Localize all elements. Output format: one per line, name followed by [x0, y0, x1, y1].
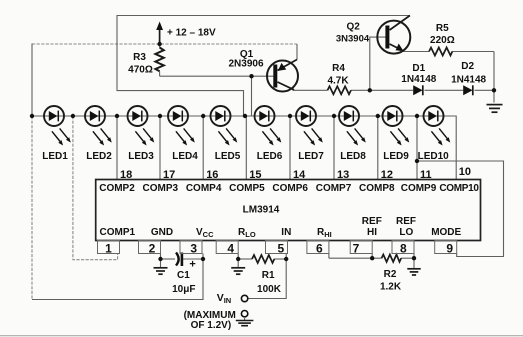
pin box 2 — [139, 241, 161, 254]
wire pin 15 stub — [245, 116, 247, 180]
pin box 4 — [216, 241, 238, 254]
node pin4 RLO — [236, 257, 240, 261]
LED9 — [383, 106, 410, 146]
node D2 cathode / ground — [492, 88, 496, 92]
node pin8 REF LO — [412, 256, 416, 260]
node Q2 base / R4 / D1 — [368, 88, 372, 92]
svg-text:LED4: LED4 — [172, 151, 198, 162]
svg-text:IN: IN — [281, 227, 291, 238]
LED5 — [211, 106, 238, 146]
node +V supply rail — [32, 43, 297, 45]
resistor R1 100K — [252, 255, 274, 263]
LED10 — [424, 106, 451, 146]
wire COMP1 route (dashed) — [73, 116, 118, 260]
svg-text:LED8: LED8 — [340, 151, 366, 162]
power arrow +12-18V — [156, 22, 163, 45]
svg-text:470Ω: 470Ω — [128, 65, 153, 76]
wire pin 16 stub — [202, 116, 204, 180]
pin box 9 — [435, 241, 457, 254]
node LED4/LED5 junction — [201, 114, 205, 118]
ground (Vin) — [236, 317, 254, 326]
svg-text:R4: R4 — [332, 63, 345, 74]
wire pin 18 stub — [116, 116, 118, 180]
wire LED row — [32, 115, 444, 117]
svg-text:18: 18 — [120, 169, 132, 181]
node LED7/LED8 junction — [332, 114, 336, 118]
pin box 8 — [392, 241, 414, 254]
LED3 — [128, 106, 155, 146]
pin box 1 — [98, 241, 120, 254]
svg-text:1.2K: 1.2K — [380, 281, 402, 292]
wire R3 bottom to Q1 base — [160, 75, 274, 77]
svg-text:COMP6: COMP6 — [272, 183, 308, 194]
wire pin 6 stub — [328, 254, 330, 259]
wire pin 11 stub — [416, 116, 418, 180]
node R3 top / +V — [157, 42, 161, 46]
svg-text:R2: R2 — [384, 269, 397, 280]
svg-text:MODE: MODE — [431, 227, 461, 238]
wire pin 8 stub — [413, 254, 415, 259]
ground (R2 / pin 8) — [407, 269, 420, 275]
wire R4 to D1 (through Q2 base node) — [351, 89, 413, 91]
svg-text:12: 12 — [381, 169, 393, 181]
wire pin 13 stub — [333, 116, 335, 180]
svg-text:LED7: LED7 — [298, 151, 324, 162]
svg-text:LO: LO — [399, 227, 413, 238]
svg-text:GND: GND — [151, 227, 173, 238]
svg-text:6: 6 — [316, 242, 323, 256]
LED6 — [255, 106, 282, 146]
wire pin8 node to ground — [413, 258, 415, 268]
svg-text:16: 16 — [206, 169, 218, 181]
wire pin4 to R1 — [238, 258, 252, 260]
svg-text:D1: D1 — [412, 63, 425, 74]
svg-text:LM3914: LM3914 — [243, 205, 280, 216]
capacitor C1 — [176, 253, 196, 271]
wire pin5 node down to Vin — [248, 259, 286, 299]
node LED5/LED6 junction — [243, 114, 247, 118]
svg-text:R1: R1 — [262, 270, 275, 281]
LED2 — [85, 106, 112, 146]
svg-text:REF: REF — [396, 216, 416, 227]
svg-text:LED2: LED2 — [86, 151, 112, 162]
wire R2 to pin8 node — [401, 257, 414, 259]
wire pin 17 stub — [159, 116, 161, 180]
wire pin 7 stub — [371, 254, 373, 259]
node pin7 REF HI — [370, 256, 374, 260]
wire MODE to pin 11 node — [417, 161, 504, 257]
wire Q2 base lead — [370, 37, 386, 90]
svg-text:HI: HI — [367, 227, 377, 238]
wire Q1 base down to LED5/6 node — [251, 76, 253, 115]
ground (top right) — [487, 105, 503, 113]
LED7 — [296, 106, 323, 146]
svg-text:4: 4 — [227, 242, 234, 256]
svg-text:1: 1 — [105, 242, 112, 256]
wire Q1 emitter riser to +V rail — [296, 44, 298, 60]
resistor R5 220 ohm — [429, 48, 452, 56]
svg-text:LED6: LED6 — [257, 151, 283, 162]
svg-text:LED5: LED5 — [215, 151, 241, 162]
wire pin6 to pin7 node — [329, 257, 372, 259]
wire pin7 node to R2 — [372, 257, 381, 259]
LED8 — [339, 106, 366, 146]
wire pin 3 stub — [202, 254, 204, 260]
svg-text:3N3904: 3N3904 — [336, 34, 370, 45]
svg-text:10μF: 10μF — [172, 284, 195, 295]
svg-text:14: 14 — [293, 169, 306, 181]
node LED9/LED10 junction — [415, 114, 419, 118]
wire pin 12 stub — [377, 116, 379, 180]
pin box 3 — [180, 241, 202, 254]
node pin2 GND — [158, 257, 162, 261]
node LED8/LED9 junction — [376, 114, 380, 118]
svg-text:COMP7: COMP7 — [316, 183, 352, 194]
wire left outer vertical (Vcc feed) — [31, 44, 33, 117]
node pin5 IN — [284, 257, 288, 261]
svg-text:+: + — [189, 258, 195, 270]
svg-text:15: 15 — [249, 169, 261, 181]
wire R5 right — [452, 51, 494, 53]
svg-text:REF: REF — [362, 216, 382, 227]
wire D2 to ground corner — [475, 89, 495, 91]
diode D2 1N4148 — [463, 85, 473, 95]
svg-text:COMP9: COMP9 — [401, 183, 437, 194]
svg-text:COMP10: COMP10 — [439, 183, 479, 194]
svg-text:COMP4: COMP4 — [186, 183, 222, 194]
scan artifact bottom edge — [0, 335, 523, 336]
resistor R3 — [155, 44, 163, 76]
svg-text:LED3: LED3 — [128, 151, 154, 162]
svg-text:2: 2 — [149, 242, 156, 256]
svg-text:COMP2: COMP2 — [99, 183, 135, 194]
wire R5 down to diode line and ground — [493, 52, 495, 103]
svg-text:9: 9 — [446, 242, 453, 256]
svg-text:1N4148: 1N4148 — [401, 74, 436, 85]
svg-text:2N3906: 2N3906 — [228, 59, 263, 70]
svg-text:4.7K: 4.7K — [327, 76, 349, 87]
svg-text:OF 1.2V): OF 1.2V) — [191, 320, 232, 331]
ground (pin 2) — [154, 268, 168, 274]
wire Q2 emitter to R5 — [404, 51, 430, 53]
svg-text:R3: R3 — [133, 52, 146, 63]
node LED row left — [30, 114, 34, 118]
svg-text:LED1: LED1 — [42, 151, 68, 162]
wire R1 to pin5 node — [274, 258, 286, 260]
svg-text:+ 12 – 18V: + 12 – 18V — [167, 28, 216, 39]
terminal Vin — [241, 295, 247, 301]
svg-text:10: 10 — [459, 166, 471, 178]
svg-text:5: 5 — [278, 242, 285, 256]
wire C1 to pin3 — [183, 258, 203, 260]
resistor R4 4.7K — [328, 86, 352, 94]
svg-text:D2: D2 — [461, 61, 474, 72]
svg-text:8: 8 — [400, 242, 407, 256]
terminal Vin return — [241, 311, 247, 317]
svg-text:220Ω: 220Ω — [430, 35, 455, 46]
svg-text:C1: C1 — [177, 270, 190, 281]
svg-text:7: 7 — [353, 242, 360, 256]
resistor R2 1.2K — [382, 255, 402, 262]
wire D1 to D2 — [425, 89, 464, 91]
node MODE tap — [415, 159, 419, 163]
svg-text:COMP5: COMP5 — [229, 183, 265, 194]
transistor Q2 3N3904 — [377, 16, 410, 54]
ground (pin 4) — [231, 268, 245, 274]
svg-text:13: 13 — [337, 169, 349, 181]
node LED6/LED7 junction — [288, 114, 292, 118]
LED4 — [168, 106, 195, 146]
svg-text:17: 17 — [163, 169, 175, 181]
transistor Q1 2N3906 — [267, 60, 298, 92]
wire Q1 collector to R4 — [293, 89, 328, 91]
svg-text:Q2: Q2 — [347, 22, 361, 33]
svg-text:COMP8: COMP8 — [359, 183, 395, 194]
IC U1 LM3914 body — [96, 180, 481, 241]
svg-text:COMP3: COMP3 — [143, 183, 179, 194]
svg-text:R5: R5 — [436, 23, 449, 34]
pin box 6 — [307, 241, 329, 254]
svg-text:100K: 100K — [257, 284, 282, 295]
wire pin2 to C1 — [161, 258, 176, 260]
wire bottom Vcc feed — [32, 259, 203, 300]
node pin3 Vcc — [201, 257, 205, 261]
svg-text:LED10: LED10 — [418, 151, 450, 162]
wire pin2 node to ground — [160, 259, 162, 268]
svg-text:1N4148: 1N4148 — [451, 75, 486, 86]
wire LED10 to pin 10 — [444, 116, 456, 180]
diode D1 1N4148 — [413, 85, 423, 95]
svg-text:3: 3 — [190, 242, 197, 256]
node LED3/LED4 junction — [158, 114, 162, 118]
wire pin 5 stub — [285, 254, 287, 260]
node LED2/LED3 junction — [115, 114, 119, 118]
svg-text:11: 11 — [420, 169, 432, 181]
pin box 7 — [350, 241, 372, 254]
svg-text:LED9: LED9 — [383, 151, 409, 162]
wire top (Q2 collector to LED5/6 node) — [117, 16, 410, 116]
node Q1 base junction — [249, 74, 253, 78]
pin box 5 — [266, 241, 288, 254]
node LED1/LED2 junction — [71, 114, 75, 118]
wire pin 4 stub — [237, 254, 239, 260]
wire pin4 node to ground — [237, 259, 239, 268]
wire pin 14 stub — [289, 116, 291, 180]
svg-text:COMP1: COMP1 — [100, 227, 136, 238]
wire pin 2 stub — [160, 254, 162, 260]
LED1 — [44, 106, 71, 146]
